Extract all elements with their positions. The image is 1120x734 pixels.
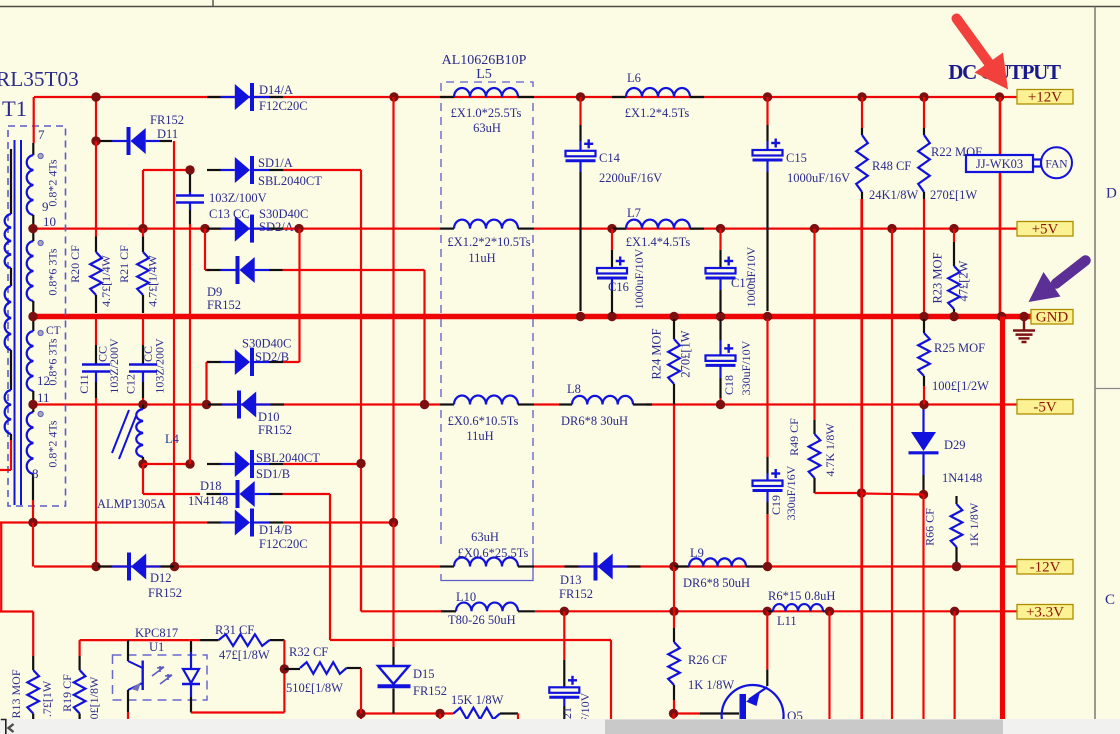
svg-text:SD2/A: SD2/A bbox=[259, 220, 294, 234]
sheet border tick top bbox=[212, 0, 214, 7]
svg-text:103Z/100V: 103Z/100V bbox=[209, 191, 267, 205]
inductor L8 bbox=[559, 403, 572, 405]
resistor R20 CF bbox=[95, 141, 97, 237]
node junction GND symbol bbox=[1019, 312, 1028, 321]
node junction D14B x393 bbox=[389, 518, 398, 527]
resistor R25 MOF bbox=[923, 319, 925, 333]
wire SD1/A output bbox=[283, 169, 361, 171]
svg-text:FR152: FR152 bbox=[559, 587, 593, 601]
svg-text:RL35T03: RL35T03 bbox=[0, 67, 79, 91]
svg-text:£X0.6*25.5Ts: £X0.6*25.5Ts bbox=[458, 546, 529, 560]
svg-text:0.8*2 4Ts: 0.8*2 4Ts bbox=[46, 420, 60, 467]
dashed box L5 block left bbox=[441, 82, 533, 548]
svg-text:1000uF/16V: 1000uF/16V bbox=[787, 171, 850, 185]
svg-text:11uH: 11uH bbox=[466, 429, 493, 443]
svg-text:0£[1/8W: 0£[1/8W bbox=[87, 676, 101, 719]
svg-text:103Z/200V: 103Z/200V bbox=[153, 338, 167, 394]
wire C11 down to D12 row bbox=[95, 398, 97, 567]
svg-text:10: 10 bbox=[43, 214, 56, 229]
node junction C14 top bbox=[576, 92, 585, 101]
svg-text:R31 CF: R31 CF bbox=[215, 623, 254, 637]
wire +5V rail right bbox=[534, 228, 1017, 230]
diode D14/B bbox=[207, 521, 221, 523]
svg-text:15K 1/8W: 15K 1/8W bbox=[451, 693, 504, 707]
wire D11 anode vertical x174 bbox=[173, 141, 175, 567]
node junction C12 bottom / L4 top bbox=[138, 400, 147, 409]
svg-text:L9: L9 bbox=[690, 546, 704, 560]
inductor L7 bbox=[612, 228, 626, 230]
capacitor C18 bbox=[719, 319, 721, 340]
wire LED bottom bbox=[191, 711, 284, 713]
zone divider right margin bbox=[1095, 388, 1120, 390]
resistor R23 MOF bbox=[948, 266, 960, 309]
svg-text:T80-26 50uH: T80-26 50uH bbox=[448, 613, 516, 627]
node junction L9 right bbox=[763, 562, 772, 571]
resistor 15K 1/8W bbox=[435, 709, 444, 718]
transformer T1 primary winding W1 bbox=[10, 149, 12, 214]
svg-text:£X1.0*25.5Ts: £X1.0*25.5Ts bbox=[451, 106, 522, 120]
svg-text:47£[1/8W: 47£[1/8W bbox=[219, 648, 270, 662]
wire SD2/A out bbox=[283, 228, 299, 230]
diode SD1/A bbox=[207, 169, 221, 171]
GND bus wire bbox=[33, 314, 1031, 320]
wire SD1B out bbox=[283, 463, 361, 465]
svg-text:47£[2W: 47£[2W bbox=[957, 260, 971, 301]
resistor R66 CF bbox=[955, 496, 957, 504]
node junction GND bus vertical bbox=[997, 312, 1006, 321]
svg-text:D9: D9 bbox=[207, 285, 222, 299]
svg-text:0.8*6 3Ts: 0.8*6 3Ts bbox=[46, 338, 60, 385]
inductor L10 bbox=[441, 610, 456, 612]
wire left edge vertical bbox=[0, 523, 2, 612]
port label -12V bbox=[1017, 560, 1073, 575]
svg-text:T1: T1 bbox=[2, 96, 27, 121]
inductor L9 bbox=[674, 565, 689, 567]
port label +5V bbox=[1017, 222, 1073, 237]
diode SD2/B bbox=[207, 361, 221, 363]
svg-text:U1: U1 bbox=[149, 640, 164, 654]
svg-text:R13 MOF: R13 MOF bbox=[9, 669, 23, 718]
opto LED bbox=[190, 640, 192, 652]
svg-text:£X0.6*10.5Ts: £X0.6*10.5Ts bbox=[448, 414, 519, 428]
svg-text:AL10626B10P: AL10626B10P bbox=[442, 53, 527, 68]
opto transistor bbox=[127, 640, 129, 661]
node junction D9 branch bbox=[200, 224, 209, 233]
svg-text:L7: L7 bbox=[627, 206, 641, 220]
svg-text:D15: D15 bbox=[413, 667, 435, 681]
diode D14/A bbox=[207, 96, 221, 98]
diode D15 FR152 zener style bbox=[392, 523, 394, 648]
svg-text:R48 CF: R48 CF bbox=[872, 159, 911, 173]
svg-text:R25 MOF: R25 MOF bbox=[934, 341, 985, 355]
node junction C21 top bbox=[560, 607, 569, 616]
connector JJ-WK03 bbox=[966, 155, 1033, 172]
wire x954 down bbox=[953, 611, 955, 719]
resistor R22 bbox=[919, 92, 928, 101]
node junction R49/D29 wire bbox=[857, 488, 866, 497]
svg-text:R49 CF: R49 CF bbox=[787, 418, 801, 456]
wire -5V rail mid bbox=[534, 403, 559, 405]
svg-text:R23 MOF: R23 MOF bbox=[931, 252, 945, 303]
transformer T1 primary winding W3 bbox=[10, 350, 12, 390]
wire D14B out bbox=[283, 521, 394, 523]
node junction pin10 rail bbox=[28, 224, 37, 233]
port label -5V bbox=[1017, 400, 1073, 415]
svg-text:R19 CF: R19 CF bbox=[60, 674, 74, 712]
wire bottom rail bbox=[361, 712, 454, 714]
svg-text:-12V: -12V bbox=[1030, 560, 1061, 576]
resistor R31 CF bbox=[189, 639, 200, 641]
node junction C17 top bbox=[716, 224, 725, 233]
node junction D11 bbox=[91, 136, 100, 145]
wire R19 to opto bbox=[80, 639, 190, 641]
svg-text:D29: D29 bbox=[944, 438, 966, 452]
svg-text:DR6*8 30uH: DR6*8 30uH bbox=[561, 414, 628, 428]
capacitor C14 bbox=[579, 97, 581, 125]
transistor Q5 bbox=[722, 685, 784, 734]
polarity dot winding A bbox=[38, 153, 43, 158]
node junction R23 top bbox=[949, 224, 958, 233]
diode D18 1N4148 bbox=[207, 493, 221, 495]
fan symbol bbox=[1041, 147, 1072, 178]
transformer T1 secondary junction 12-11 bbox=[32, 391, 34, 405]
polarity dot winding D bbox=[38, 411, 43, 416]
node junction L4 bottom bbox=[138, 459, 147, 468]
transformer T1 secondary winding B pin10-CT bbox=[27, 241, 34, 301]
svg-text:D11: D11 bbox=[157, 127, 178, 141]
node junction R23 bus bbox=[949, 312, 958, 321]
svg-text:0.8*6 3Ts: 0.8*6 3Ts bbox=[46, 248, 60, 295]
wire C13 column x190 bbox=[189, 229, 191, 464]
svg-text:24K1/8W: 24K1/8W bbox=[869, 188, 919, 202]
svg-text:L8: L8 bbox=[567, 382, 581, 396]
svg-text:103Z/200V: 103Z/200V bbox=[107, 338, 121, 394]
svg-text:FR152: FR152 bbox=[150, 113, 184, 127]
node junction R31/R32 bbox=[280, 664, 289, 673]
svg-text:SBL2040CT: SBL2040CT bbox=[258, 174, 322, 188]
svg-text:C12: C12 bbox=[124, 374, 138, 394]
svg-text:FR152: FR152 bbox=[207, 298, 241, 312]
node junction SD1B input bbox=[185, 459, 194, 468]
transformer T1 secondary winding A pins 7-9 bbox=[32, 143, 34, 155]
svg-text:D14/B: D14/B bbox=[259, 523, 292, 537]
inductor L6 bbox=[612, 96, 626, 98]
inductor L4 bbox=[142, 405, 144, 410]
svg-text:4.7£[1/4W: 4.7£[1/4W bbox=[146, 254, 160, 306]
wire -5V rail right bbox=[646, 403, 1017, 405]
svg-text:4.7K 1/8W: 4.7K 1/8W bbox=[823, 423, 837, 477]
svg-text:C19: C19 bbox=[769, 495, 783, 515]
svg-text:+5V: +5V bbox=[1032, 222, 1059, 238]
svg-text:C18: C18 bbox=[722, 375, 736, 395]
diode D13 FR152 bbox=[565, 565, 579, 567]
wire -5V rail left bbox=[33, 403, 440, 405]
capacitor C13 bbox=[189, 174, 191, 192]
capacitor C21 bbox=[563, 611, 565, 660]
svg-text:R6*15 0.8uH: R6*15 0.8uH bbox=[768, 589, 835, 603]
node junction C16 bus bbox=[607, 312, 616, 321]
node junction pin8 bbox=[28, 518, 37, 527]
purple annotation arrow bbox=[1056, 261, 1086, 284]
svg-text:R32 CF: R32 CF bbox=[289, 645, 328, 659]
svg-text:330uF/10V: 330uF/10V bbox=[739, 340, 753, 395]
node junction +12V x394 bbox=[389, 92, 398, 101]
svg-text:GND: GND bbox=[1036, 310, 1069, 326]
node junction C18 bus bbox=[716, 312, 725, 321]
wire y640 link bbox=[330, 639, 611, 641]
svg-text:C: C bbox=[1105, 592, 1115, 608]
svg-text:R66 CF: R66 CF bbox=[923, 508, 937, 546]
GND thick vertical bus bbox=[1000, 317, 1005, 720]
svg-text:D10: D10 bbox=[258, 410, 280, 424]
wire SD2/B left corner bbox=[205, 362, 207, 405]
sheet right border bbox=[1094, 7, 1096, 720]
node junction R21 top bbox=[138, 224, 147, 233]
svg-text:C16: C16 bbox=[608, 280, 629, 294]
inductor L5 63uH bbox=[440, 96, 454, 98]
svg-text:JJ-WK03: JJ-WK03 bbox=[976, 157, 1023, 171]
resistor R19 CF bbox=[78, 640, 80, 656]
node junction R26 top rail bbox=[669, 607, 678, 616]
node junction L9 left bbox=[669, 562, 678, 571]
wire D9 output bbox=[283, 269, 425, 271]
node junction R25 bus bbox=[919, 312, 928, 321]
polarity dot winding C bbox=[38, 330, 43, 335]
svg-text:FAN: FAN bbox=[1045, 158, 1068, 170]
svg-text:330uF/16V: 330uF/16V bbox=[784, 465, 798, 520]
svg-text:£X1.2*2*10.5Ts: £X1.2*2*10.5Ts bbox=[447, 235, 530, 249]
svg-text:DR6*8 50uH: DR6*8 50uH bbox=[683, 576, 750, 590]
wire R49 corner to x861 bbox=[815, 492, 862, 494]
resistor R21 CF bbox=[142, 229, 144, 237]
wire D14 output vertical bbox=[392, 97, 394, 523]
svg-text:R26 CF: R26 CF bbox=[688, 653, 727, 667]
scrollbar thumb bbox=[605, 720, 1003, 734]
wire SD1A/SD1B output vertical x361 bbox=[360, 170, 362, 611]
wire R48 down long bbox=[861, 199, 863, 719]
svg-text:270£[1W: 270£[1W bbox=[679, 330, 693, 377]
diode SD1/B bbox=[207, 463, 221, 465]
port label +12V bbox=[1017, 90, 1073, 105]
capacitor C12 bbox=[142, 319, 144, 345]
svg-text:CT: CT bbox=[46, 325, 61, 337]
wire primary exit bbox=[10, 434, 12, 440]
wire D18 left corner bbox=[142, 464, 144, 494]
node junction D9 to -5V bbox=[420, 400, 429, 409]
svg-text:510£[1/8W: 510£[1/8W bbox=[286, 681, 343, 695]
svg-text:KPC817: KPC817 bbox=[135, 626, 178, 640]
port label GND bbox=[1031, 310, 1073, 325]
svg-text:D13: D13 bbox=[560, 573, 582, 587]
svg-text:D: D bbox=[1106, 186, 1117, 202]
svg-text:L6: L6 bbox=[627, 71, 641, 85]
wire R26 bottom exit bbox=[672, 714, 674, 720]
wire SD2/B out bbox=[283, 361, 300, 363]
node junction R26 bottom bbox=[669, 709, 678, 718]
svg-text:1N4148: 1N4148 bbox=[942, 471, 982, 485]
wire L9col to +3.3 bbox=[673, 567, 675, 612]
svg-text:FR152: FR152 bbox=[413, 684, 447, 698]
resistor R49 CF bbox=[813, 420, 815, 434]
svg-text:L11: L11 bbox=[777, 614, 797, 628]
svg-text:2200uF/16V: 2200uF/16V bbox=[599, 171, 662, 185]
svg-text:8: 8 bbox=[32, 466, 39, 481]
transformer T1 primary winding W2 bbox=[10, 268, 12, 286]
svg-text:FR152: FR152 bbox=[258, 423, 292, 437]
wire +12V rail bbox=[34, 96, 1017, 98]
diode D11 FR152 bbox=[99, 140, 112, 142]
svg-text:1000uF/10V: 1000uF/10V bbox=[744, 246, 758, 307]
svg-text:11: 11 bbox=[37, 390, 50, 405]
transformer T1 core bbox=[14, 140, 16, 505]
transformer T1 secondary winding D 11-8 bbox=[27, 412, 34, 474]
svg-text:270£[1W: 270£[1W bbox=[930, 188, 977, 202]
resistor R48 bbox=[857, 92, 866, 101]
wire D14B rail left bbox=[0, 521, 207, 523]
svg-text:1N4148: 1N4148 bbox=[188, 494, 228, 508]
wire +5V rail left bbox=[33, 228, 440, 230]
wire R31 right corner bbox=[283, 640, 285, 712]
svg-text:S30D40C: S30D40C bbox=[242, 337, 291, 351]
wire vertical thin to GND bbox=[999, 97, 1002, 317]
svg-text:S30D40C: S30D40C bbox=[259, 207, 308, 221]
node junction C14 bus bbox=[576, 312, 585, 321]
svg-text:63uH: 63uH bbox=[473, 121, 501, 135]
ground symbol bbox=[1023, 319, 1025, 330]
wire pin8 down bbox=[32, 474, 34, 500]
polarity dot winding B bbox=[38, 240, 43, 245]
transformer T1 secondary winding C CT-12 bbox=[32, 317, 34, 332]
diode D12 FR152 bbox=[98, 565, 112, 567]
wire SD2 output vertical x299 bbox=[298, 229, 300, 362]
wire SD1/A corner bbox=[143, 169, 190, 171]
svg-text:F12C20C: F12C20C bbox=[259, 537, 308, 551]
node junction C15 bus bbox=[763, 312, 772, 321]
node junction R25 bottom bbox=[919, 400, 928, 409]
diode D10 FR152 bbox=[208, 403, 222, 405]
wire D9 corner bbox=[204, 229, 206, 270]
svg-text:C11: C11 bbox=[77, 374, 91, 394]
svg-text:L10: L10 bbox=[456, 590, 476, 604]
svg-text:4.7£[1/4W: 4.7£[1/4W bbox=[99, 254, 113, 306]
transformer T1 secondary junction 9-10 bbox=[32, 215, 34, 229]
sheet top border bbox=[0, 6, 1120, 8]
wire D29 junction link bbox=[862, 494, 924, 495]
svg-text:F12C20C: F12C20C bbox=[259, 99, 308, 113]
svg-text:1000uF/10V: 1000uF/10V bbox=[632, 248, 646, 309]
capacitor C19 bbox=[766, 319, 768, 457]
svg-text:ALMP1305A: ALMP1305A bbox=[97, 497, 166, 511]
svg-text:63uH: 63uH bbox=[471, 530, 499, 544]
svg-text:1K 1/8W: 1K 1/8W bbox=[967, 502, 981, 547]
svg-text:1K 1/8W: 1K 1/8W bbox=[688, 678, 734, 692]
node junction R24 bus bbox=[669, 312, 678, 321]
svg-text:.7£[1W: .7£[1W bbox=[40, 680, 54, 717]
inductor 63uH X0.6*25.5Ts bbox=[440, 565, 454, 567]
capacitor C16 bbox=[611, 229, 613, 250]
resistor R24 MOF bbox=[673, 319, 675, 339]
wire x923 vertical down bbox=[922, 495, 924, 720]
pane corner bracket bbox=[1, 720, 6, 734]
wire R22 to GND bus bbox=[923, 199, 925, 317]
wire R49 long vertical bbox=[813, 229, 815, 420]
wire -12V rail right bbox=[534, 565, 1017, 567]
svg-text:+12V: +12V bbox=[1028, 90, 1062, 106]
svg-text:R20 CF: R20 CF bbox=[68, 245, 82, 283]
svg-text:L5: L5 bbox=[476, 67, 492, 82]
wire R23 top lead bbox=[953, 229, 955, 242]
wire x674 down to -12V bbox=[673, 405, 675, 567]
wire transformer to +12V rail bbox=[33, 97, 35, 143]
node junction SD2B corner bbox=[202, 400, 211, 409]
wire pin8 to D12 row bbox=[32, 523, 34, 567]
svg-text:C13 CC: C13 CC bbox=[209, 207, 250, 221]
wire D18 out bbox=[283, 493, 331, 495]
red annotation arrow bbox=[957, 19, 992, 67]
scrollbar left arrow bbox=[9, 724, 14, 732]
svg-text:C15: C15 bbox=[786, 151, 807, 165]
svg-text:11uH: 11uH bbox=[468, 251, 495, 265]
svg-text:D12: D12 bbox=[150, 571, 172, 585]
node junction x892 bbox=[887, 224, 896, 233]
node junction C18 bottom bbox=[716, 400, 725, 409]
svg-text:R24 MOF: R24 MOF bbox=[650, 328, 664, 379]
wire R26 base rail bbox=[674, 712, 701, 714]
wire +5V sense vertical x892 bbox=[891, 229, 893, 719]
connector pins to fan bbox=[1033, 158, 1041, 160]
svg-text:R21 CF: R21 CF bbox=[117, 245, 131, 283]
svg-text:£X1.2*4.5Ts: £X1.2*4.5Ts bbox=[625, 106, 690, 120]
svg-text:SD1/B: SD1/B bbox=[256, 467, 290, 481]
node junction SD2 outputs bbox=[294, 224, 303, 233]
svg-text:+3.3V: +3.3V bbox=[1026, 605, 1064, 621]
capacitor C17 bbox=[719, 229, 721, 250]
node junction D12 right bbox=[170, 562, 179, 571]
node junction R66 bottom bbox=[952, 562, 961, 571]
wire x330 vertical bbox=[329, 494, 331, 640]
svg-text:D14/A: D14/A bbox=[259, 83, 293, 97]
transformer T1 dashed box bbox=[8, 126, 66, 506]
svg-text:£X1.4*4.5Ts: £X1.4*4.5Ts bbox=[626, 235, 691, 249]
resistor R32 CF bbox=[284, 668, 300, 670]
svg-text:L4: L4 bbox=[165, 432, 180, 446]
node junction D12 left bbox=[91, 562, 100, 571]
node junction +12V bus bbox=[995, 92, 1004, 101]
diode SD2/A bbox=[207, 228, 221, 230]
node junction CT bbox=[28, 312, 37, 321]
node junction pin11 rail bbox=[28, 400, 37, 409]
node junction bottom rail left bbox=[356, 709, 365, 718]
capacitor C15 bbox=[766, 97, 768, 125]
svg-text:FR152: FR152 bbox=[148, 586, 182, 600]
wire +3.3V rail bbox=[361, 610, 441, 612]
svg-text:0.8*2 4Ts: 0.8*2 4Ts bbox=[46, 159, 60, 206]
wire left edge to R13 bbox=[0, 610, 33, 612]
capacitor C11 bbox=[95, 319, 97, 345]
resistor R26 CF bbox=[673, 611, 675, 628]
svg-text:100£[1/2W: 100£[1/2W bbox=[932, 379, 989, 393]
port label +3.3V bbox=[1017, 605, 1073, 620]
diode D9 FR152 bbox=[207, 269, 221, 271]
wire L4 to SD1B bbox=[143, 463, 190, 465]
wire x861 vertical bbox=[860, 199, 862, 719]
svg-text:D18: D18 bbox=[200, 479, 222, 493]
wire L11 down bbox=[828, 611, 830, 719]
scrollbar track bbox=[0, 719, 1120, 734]
inductor X0.6*10.5Ts 11uH bbox=[440, 403, 454, 405]
optocoupler U1 KPC817 dashed box bbox=[113, 655, 208, 700]
svg-text:SD1/A: SD1/A bbox=[258, 156, 293, 170]
